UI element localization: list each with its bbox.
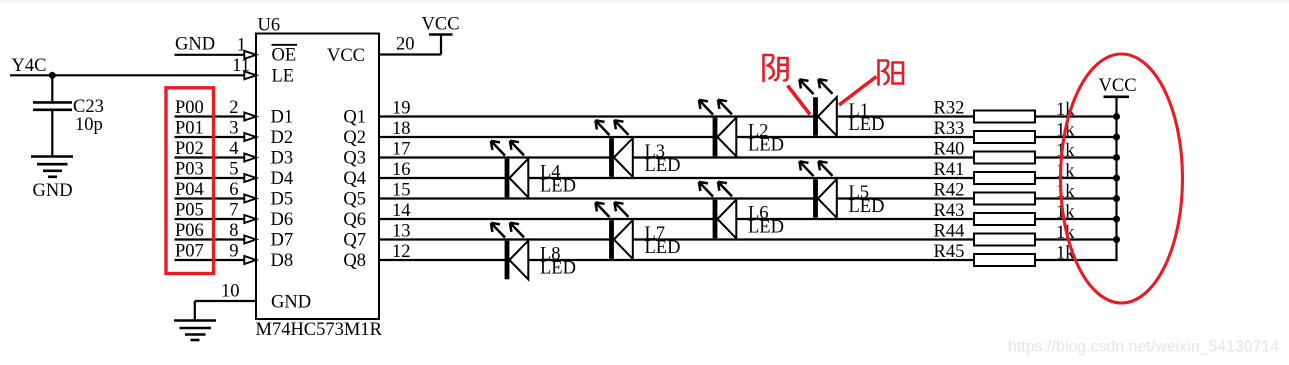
svg-text:D6: D6 bbox=[271, 210, 294, 230]
wire LED L3 to resistor R40 bbox=[633, 156, 974, 158]
svg-text:12: 12 bbox=[392, 242, 411, 262]
op-amp/latch IC U6 body bbox=[256, 34, 379, 320]
svg-text:P07: P07 bbox=[175, 241, 204, 261]
svg-text:LED: LED bbox=[849, 115, 885, 135]
svg-text:GND: GND bbox=[271, 293, 311, 313]
wire resistor R40 to VCC rail bbox=[1035, 156, 1118, 158]
wire Q3 to LED L3 bbox=[379, 156, 610, 158]
wire LED L2 to resistor R33 bbox=[736, 136, 974, 138]
input arrow pin 4 bbox=[244, 154, 256, 162]
svg-text:GND: GND bbox=[33, 181, 73, 201]
input arrow pin 7 bbox=[244, 215, 256, 223]
wire VCC rail vertical bbox=[1115, 97, 1117, 260]
svg-text:Q6: Q6 bbox=[343, 210, 366, 230]
svg-text:GND: GND bbox=[175, 35, 215, 55]
resistor R41 bbox=[974, 172, 1035, 184]
junction dot VCC rail row 5 bbox=[1113, 195, 1120, 202]
svg-text:Q4: Q4 bbox=[343, 169, 366, 189]
wire P02 to D3 bbox=[175, 156, 245, 158]
wire resistor R32 to VCC rail bbox=[1035, 115, 1118, 117]
svg-text:Q8: Q8 bbox=[343, 251, 366, 271]
wire P05 to D6 bbox=[175, 218, 245, 220]
svg-text:10: 10 bbox=[221, 282, 240, 302]
svg-text:13: 13 bbox=[392, 221, 411, 241]
svg-text:Q3: Q3 bbox=[343, 149, 366, 169]
wire P04 to D5 bbox=[175, 197, 245, 199]
svg-text:14: 14 bbox=[392, 201, 411, 221]
svg-text:R32: R32 bbox=[934, 98, 965, 118]
svg-text:Q2: Q2 bbox=[343, 128, 366, 148]
svg-text:6: 6 bbox=[229, 180, 238, 200]
ground symbol under IC bbox=[174, 321, 216, 341]
red annotation character (anode) bbox=[879, 61, 904, 85]
wire Y4C net to pin 11 bbox=[10, 74, 245, 76]
junction dot VCC rail row 7 bbox=[1113, 236, 1120, 243]
wire pin 20 to VCC bbox=[379, 35, 441, 55]
wire Q4 to LED L4 bbox=[379, 177, 506, 179]
svg-text:20: 20 bbox=[396, 35, 415, 55]
input arrow pin 11 bbox=[244, 71, 256, 79]
wire Q7 to LED L7 bbox=[379, 238, 610, 240]
wire resistor R41 to VCC rail bbox=[1035, 177, 1118, 179]
wire Q2 to LED L2 bbox=[379, 136, 714, 138]
wire P07 to D8 bbox=[175, 259, 245, 261]
junction dot VCC rail row 2 bbox=[1113, 134, 1120, 141]
wire resistor R33 to VCC rail bbox=[1035, 136, 1118, 138]
input arrow pin 6 bbox=[244, 195, 256, 203]
svg-text:LED: LED bbox=[748, 135, 784, 155]
svg-text:VCC: VCC bbox=[1099, 76, 1137, 96]
wire resistor R45 to VCC rail bbox=[1035, 259, 1118, 261]
svg-text:9: 9 bbox=[229, 241, 238, 261]
LED L8 bbox=[491, 223, 528, 280]
wire P00 to D1 bbox=[175, 115, 245, 117]
wire Q8 to LED L8 bbox=[379, 259, 506, 261]
input arrow pin 3 bbox=[244, 133, 256, 141]
input arrow pin 5 bbox=[244, 174, 256, 182]
svg-text:VCC: VCC bbox=[422, 15, 460, 35]
svg-text:C23: C23 bbox=[73, 97, 104, 117]
pin label OE (active low) bbox=[272, 45, 298, 66]
resistor R32 bbox=[974, 111, 1035, 123]
wire GND net to pin 1 bbox=[175, 54, 245, 56]
svg-text:19: 19 bbox=[392, 98, 411, 118]
svg-text:LED: LED bbox=[540, 258, 576, 278]
junction dot VCC rail row 4 bbox=[1113, 175, 1120, 182]
wire LED L4 to resistor R41 bbox=[528, 177, 974, 179]
resistor R33 bbox=[974, 131, 1035, 143]
red leader line to LED cathode bbox=[788, 86, 811, 115]
svg-text:OE: OE bbox=[272, 46, 297, 66]
svg-text:P03: P03 bbox=[175, 159, 204, 179]
svg-text:Q5: Q5 bbox=[343, 190, 366, 210]
svg-text:R40: R40 bbox=[934, 139, 965, 159]
resistor R44 bbox=[974, 234, 1035, 246]
svg-text:Q7: Q7 bbox=[343, 231, 366, 251]
input arrow pin 2 bbox=[244, 113, 256, 121]
svg-text:R42: R42 bbox=[934, 180, 965, 200]
junction dot on Y4C net bbox=[49, 72, 56, 79]
wire Q1 to LED L1 bbox=[379, 115, 814, 117]
wire P01 to D2 bbox=[175, 136, 245, 138]
svg-text:VCC: VCC bbox=[327, 46, 365, 66]
svg-text:16: 16 bbox=[392, 160, 411, 180]
svg-text:R41: R41 bbox=[934, 160, 965, 180]
svg-text:D3: D3 bbox=[271, 149, 294, 169]
svg-text:D1: D1 bbox=[271, 108, 294, 128]
LED L2 bbox=[699, 100, 736, 157]
svg-text:Y4C: Y4C bbox=[12, 56, 47, 76]
svg-text:P01: P01 bbox=[175, 118, 204, 138]
LED L4 bbox=[491, 141, 528, 198]
svg-text:U6: U6 bbox=[258, 16, 281, 36]
svg-text:LED: LED bbox=[849, 197, 885, 217]
svg-text:5: 5 bbox=[229, 159, 238, 179]
svg-text:R45: R45 bbox=[934, 242, 965, 262]
red highlight ellipse around VCC rail bbox=[1061, 54, 1183, 303]
svg-text:17: 17 bbox=[392, 139, 411, 159]
input arrow pin 1 bbox=[244, 51, 256, 59]
resistor R45 bbox=[974, 254, 1035, 266]
svg-text:P04: P04 bbox=[175, 180, 204, 200]
wire LED L1 to resistor R32 bbox=[837, 115, 974, 117]
svg-text:D4: D4 bbox=[271, 169, 294, 189]
svg-text:8: 8 bbox=[229, 221, 238, 241]
svg-text:LED: LED bbox=[748, 217, 784, 237]
wire Q5 to LED L5 bbox=[379, 197, 814, 199]
capacitor C23 bbox=[33, 75, 72, 155]
wire LED L8 to resistor R45 bbox=[528, 259, 974, 261]
red leader line to LED anode bbox=[839, 77, 877, 106]
svg-text:D7: D7 bbox=[271, 231, 294, 251]
LED L1 bbox=[799, 79, 836, 136]
wire resistor R44 to VCC rail bbox=[1035, 238, 1118, 240]
wire resistor R43 to VCC rail bbox=[1035, 218, 1118, 220]
svg-text:11: 11 bbox=[232, 56, 250, 76]
LED L7 bbox=[595, 202, 632, 259]
svg-text:LE: LE bbox=[272, 67, 295, 87]
svg-text:D8: D8 bbox=[271, 251, 294, 271]
wire LED L5 to resistor R42 bbox=[837, 197, 974, 199]
svg-text:LED: LED bbox=[645, 238, 681, 258]
wire LED L6 to resistor R43 bbox=[736, 218, 974, 220]
resistor R42 bbox=[974, 193, 1035, 205]
svg-text:4: 4 bbox=[229, 139, 238, 159]
svg-text:P05: P05 bbox=[175, 200, 204, 220]
wire Q6 to LED L6 bbox=[379, 218, 714, 220]
LED L6 bbox=[699, 182, 736, 239]
svg-text:https://blog.csdn.net/weixin_5: https://blog.csdn.net/weixin_54130714 bbox=[1008, 339, 1279, 356]
power symbol VCC (right rail) bbox=[1104, 96, 1130, 99]
svg-text:P00: P00 bbox=[175, 98, 204, 118]
ground symbol under C23 bbox=[31, 157, 73, 177]
svg-text:P06: P06 bbox=[175, 221, 204, 241]
svg-text:R43: R43 bbox=[934, 201, 965, 221]
top window hairline bbox=[0, 0, 1289, 2]
wire P03 to D4 bbox=[175, 177, 245, 179]
svg-text:15: 15 bbox=[392, 180, 411, 200]
svg-text:10p: 10p bbox=[75, 115, 103, 135]
svg-text:2: 2 bbox=[229, 98, 238, 118]
svg-text:LED: LED bbox=[540, 176, 576, 196]
power symbol VCC (top of IC) bbox=[429, 33, 453, 36]
svg-text:D5: D5 bbox=[271, 190, 294, 210]
svg-text:18: 18 bbox=[392, 119, 411, 139]
svg-text:P02: P02 bbox=[175, 139, 204, 159]
svg-text:Q1: Q1 bbox=[343, 108, 366, 128]
input arrow pin 9 bbox=[244, 256, 256, 264]
svg-text:LED: LED bbox=[645, 156, 681, 176]
junction dot VCC rail row 1 bbox=[1113, 113, 1120, 120]
LED L3 bbox=[595, 120, 632, 177]
svg-text:R44: R44 bbox=[934, 221, 965, 241]
wire P06 to D7 bbox=[175, 238, 245, 240]
svg-text:1: 1 bbox=[237, 36, 246, 56]
svg-text:R33: R33 bbox=[934, 119, 965, 139]
svg-text:7: 7 bbox=[229, 200, 238, 220]
LED L5 bbox=[799, 161, 836, 218]
resistor R40 bbox=[974, 152, 1035, 164]
svg-text:3: 3 bbox=[229, 118, 238, 138]
red highlight box around P00-P07 bbox=[166, 88, 214, 274]
junction dot VCC rail row 3 bbox=[1113, 154, 1120, 161]
input arrow pin 8 bbox=[244, 236, 256, 244]
wire LED L7 to resistor R44 bbox=[633, 238, 974, 240]
svg-text:D2: D2 bbox=[271, 128, 294, 148]
svg-text:M74HC573M1R: M74HC573M1R bbox=[256, 320, 383, 340]
resistor R43 bbox=[974, 213, 1035, 225]
wire resistor R42 to VCC rail bbox=[1035, 197, 1118, 199]
red annotation character (cathode) bbox=[764, 55, 788, 81]
wire pin 10 to ground bbox=[195, 301, 256, 320]
junction dot VCC rail row 6 bbox=[1113, 216, 1120, 223]
